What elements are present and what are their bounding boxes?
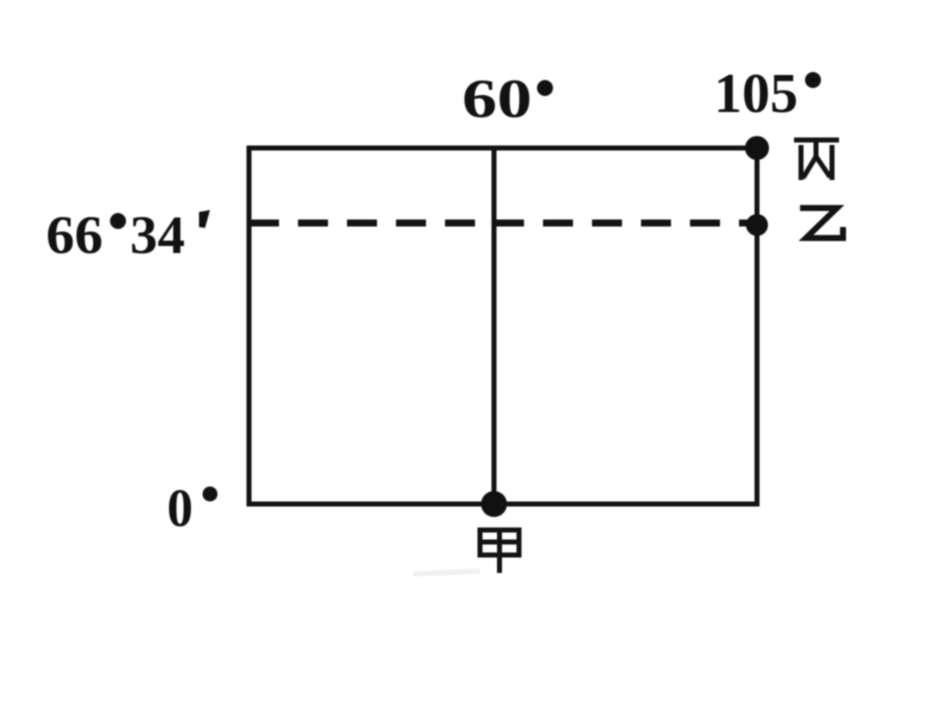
- faint scan smudge: [413, 571, 480, 574]
- point Bing dot: [745, 136, 769, 160]
- meridian line 60 degrees: [492, 148, 497, 503]
- character Bing: [794, 140, 839, 180]
- map frame rectangle: [249, 148, 757, 504]
- svg-text:0: 0: [167, 478, 193, 538]
- svg-text:66: 66: [46, 205, 103, 265]
- point Yi dot: [746, 214, 768, 236]
- svg-text:34: 34: [130, 205, 185, 265]
- character Jia: [480, 530, 519, 573]
- svg-text:60: 60: [462, 68, 532, 129]
- svg-text:105: 105: [714, 63, 798, 125]
- character Yi: [800, 208, 843, 238]
- point Jia dot: [481, 491, 507, 517]
- polar circle dashed line 66 34: [249, 220, 753, 227]
